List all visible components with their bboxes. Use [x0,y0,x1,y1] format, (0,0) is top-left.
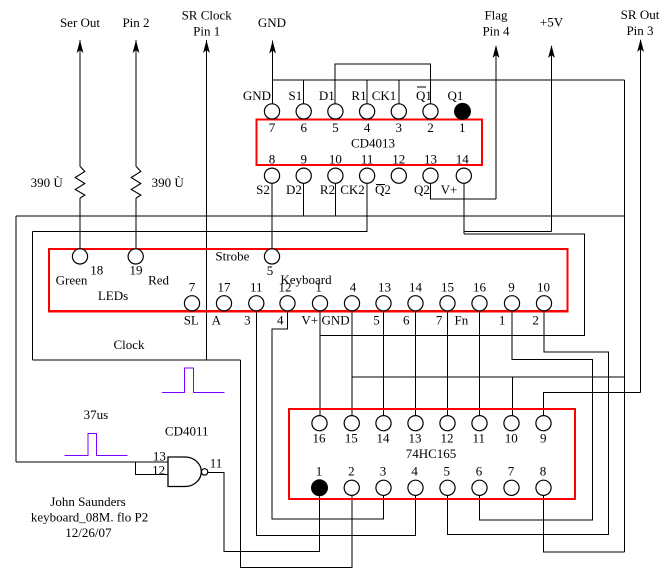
CD4013 pin 13 Q2 [414,152,438,198]
svg-text:SR Clock: SR Clock [182,8,233,23]
wire GND bottom to 74HC165 pin 8 [544,495,625,552]
svg-text:Green: Green [56,273,88,288]
svg-text:S2: S2 [256,182,270,197]
svg-text:14: 14 [409,279,423,294]
wire Clock horizontal [33,359,241,361]
svg-text:17: 17 [218,279,232,294]
wire keyboard pin 15 column to 74HC165 pin 12 [447,311,449,416]
svg-text:12: 12 [279,279,292,294]
keyboard pin 17 A [212,279,232,327]
svg-text:18: 18 [90,263,103,278]
svg-text:S1: S1 [289,88,303,103]
svg-text:Pin 3: Pin 3 [626,23,653,38]
svg-text:8: 8 [269,152,276,167]
svg-text:4: 4 [411,463,418,478]
svg-text:13: 13 [424,152,437,167]
keyboard pin 11 key 3 [244,279,264,327]
svg-text:7: 7 [189,279,196,294]
svg-text:13: 13 [153,449,166,464]
keyboard pin 15 key 7 [436,279,455,327]
wire CK2 to clock left column [33,183,368,231]
CD4013 pin 14 V+ [441,152,472,198]
svg-text:9: 9 [508,279,515,294]
keyboard pin 5 Strobe [215,249,279,279]
svg-text:8: 8 [540,463,547,478]
svg-text:Pin 2: Pin 2 [122,15,149,30]
svg-text:13: 13 [409,431,422,446]
svg-text:7: 7 [269,120,276,135]
wire GND net: left column x=16 down to CD4011 input [15,216,17,462]
wire keyboard pin 11 to 74HC165 pin 4 [256,311,415,535]
74HC165 pin 15 [344,416,359,446]
IC U1 CD4013 red outline [257,120,483,166]
svg-text:4: 4 [350,279,357,294]
svg-text:R1: R1 [351,88,366,103]
svg-text:R2: R2 [320,182,335,197]
svg-text:GND: GND [258,15,286,30]
74HC165 pin 6 [472,463,487,495]
wire SR Out to 74HC165 pin 9 [544,392,641,415]
svg-text:10: 10 [329,152,342,167]
wire CD4011 pin 13 input [16,461,168,463]
CD4013 pin 10 R2 [320,152,343,198]
svg-text:1: 1 [499,312,506,327]
svg-text:Q1: Q1 [416,88,432,103]
svg-text:D2: D2 [286,182,302,197]
wire V+ pin down to +5V rail [463,183,465,234]
wire Clock down to 74HC165 pin 2 [241,360,352,568]
wire GND net: right-side vertical column x=624.6 [624,80,626,552]
svg-text:Clock: Clock [113,337,145,352]
wire GND drop to 74HC165 pin 10 [511,377,513,416]
wire keyboard pin 16 column to 74HC165 pin 11 [479,311,481,416]
svg-text:Flag: Flag [484,8,508,23]
svg-text:4: 4 [364,120,371,135]
svg-text:15: 15 [441,279,454,294]
keyboard pin 14 key 6 [403,279,423,327]
node SR Out Pin 3 (test point arrow) [621,7,660,392]
svg-text:CK2: CK2 [340,182,365,197]
svg-text:SL: SL [184,312,199,327]
svg-text:11: 11 [361,152,374,167]
wire keyboard pin 9 to 74HC165 pin 6 [480,311,593,520]
svg-text:37us: 37us [84,407,109,422]
svg-text:Red: Red [148,273,169,288]
node SR Clock Pin 1 (test point arrow) [182,8,233,361]
keyboard pin 16 Fn [455,279,488,327]
wire CD4011 pin 12 input jog [135,462,168,475]
74HC165 pin 13 [408,416,423,446]
svg-text:11: 11 [250,279,263,294]
svg-text:12: 12 [392,152,405,167]
svg-text:A: A [212,312,222,327]
wire GND net: horizontal bus from GND arrow to right edge column [273,79,625,81]
svg-text:+5V: +5V [540,15,564,30]
svg-text:Pin 1: Pin 1 [193,24,220,39]
svg-text:19: 19 [130,263,143,278]
svg-text:2: 2 [532,312,539,327]
svg-text:1: 1 [315,279,322,294]
svg-text:14: 14 [456,152,470,167]
keyboard pin 10 key 2 [532,279,551,327]
74HC165 pin 10 [504,416,519,446]
svg-text:390 Ù: 390 Ù [152,175,185,190]
svg-text:Pin 4: Pin 4 [482,24,510,39]
svg-text:13: 13 [378,279,391,294]
svg-text:390 Ù: 390 Ù [31,175,64,190]
svg-text:1: 1 [459,120,466,135]
CD4013 pin 2 Q1-bar [416,87,438,135]
keyboard connector red outline [49,249,568,311]
CD4013 pin 1 Q1 (marked, filled) [448,88,471,135]
74HC165 pin 9 [536,416,551,446]
node +5V (power arrow) [540,15,564,232]
svg-text:7: 7 [508,463,515,478]
svg-text:CD4011: CD4011 [165,424,209,439]
CD4013 pin 9 D2 [286,152,311,198]
svg-text:Ser Out: Ser Out [60,15,100,30]
svg-text:9: 9 [540,431,547,446]
svg-text:12: 12 [441,431,454,446]
svg-text:5: 5 [267,263,274,278]
wire D1 to Q1-bar feedback [335,64,431,104]
svg-text:3: 3 [380,463,387,478]
svg-text:11: 11 [210,456,223,471]
wire S2 to keyboard Strobe pin 5 [271,183,273,249]
wire CK1 stub to GND bus [398,80,400,104]
wire V+ rail to +5V arrow column [464,230,552,232]
svg-text:7: 7 [436,312,443,327]
svg-text:John Saunders: John Saunders [50,494,125,509]
svg-text:V+: V+ [441,182,458,197]
keyboard pin 7 SL [184,279,200,327]
wire keyboard pin 1 V+ column down to 74HC165 pin 16 [319,336,321,416]
svg-text:Q1: Q1 [448,88,464,103]
CD4013 pin 7 GND [243,88,280,135]
svg-text:6: 6 [403,312,410,327]
keyboard pin 4 GND [322,279,360,327]
svg-text:12/26/07: 12/26/07 [65,525,112,540]
74HC165 pin 3 [376,463,391,495]
node Flag Pin 4 (test point arrow) [482,8,510,200]
node Pin 2 (test point arrow) [122,15,149,166]
svg-text:1: 1 [316,463,323,478]
svg-text:GND: GND [322,312,350,327]
node Ser Out (test point arrow) [60,15,100,166]
svg-text:16: 16 [313,431,327,446]
wire R1 stub to GND bus [366,80,368,104]
svg-text:Fn: Fn [455,312,469,327]
CD4013 pin 4 R1 [351,88,374,135]
74HC165 pin 5 [440,463,455,495]
wire CD4011 output pin 11 to 74HC165 pin 1 [207,472,319,551]
74HC165 pin 12 [440,416,455,446]
svg-text:9: 9 [300,152,307,167]
op-amp/gate CD4011 NAND U2 body [152,424,222,487]
svg-text:15: 15 [345,431,358,446]
keyboard pin 19 Red LED [128,249,169,288]
wire keyboard pin 4 GND column down to 74HC165 pin 15 [351,311,353,416]
svg-text:Q2: Q2 [414,182,430,197]
svg-text:D1: D1 [319,88,335,103]
svg-text:5: 5 [443,463,450,478]
svg-text:3: 3 [396,120,403,135]
keyboard pin 1 V+ [301,279,327,327]
svg-text:11: 11 [473,431,486,446]
wire GND net: mid horizontal y=216 from left column to right column (D2,R2) [16,215,625,217]
wire keyboard pin 10 to 74HC165 pin 5 [448,311,609,534]
svg-text:14: 14 [377,431,391,446]
svg-text:Strobe: Strobe [215,249,249,264]
waveform clock pulse (purple) [162,368,225,392]
svg-text:6: 6 [476,463,483,478]
74HC165 pin 8 [536,463,551,495]
wire GND horizontal y=376.8 from keyboard pin 4 to right GND column [352,376,625,378]
CD4013 pin 8 S2 [256,152,279,198]
keyboard pin 9 key 1 [499,279,520,327]
svg-text:keyboard_08M. flo P2: keyboard_08M. flo P2 [31,510,148,525]
74HC165 pin 7 [504,463,519,495]
CD4013 pin 11 CK2 [340,152,374,198]
wire keyboard pin 12 to 74HC165 pin 3 [272,311,384,519]
svg-text:5: 5 [332,120,339,135]
wire Q2 to Flag [431,183,497,199]
wire S1 stub to GND bus [303,80,305,104]
74HC165 pin 14 [376,416,391,446]
74HC165 pin 16 [312,416,327,446]
svg-text:V+: V+ [301,312,318,327]
keyboard pin 18 Green LED [56,249,104,288]
svg-text:CK1: CK1 [372,88,397,103]
74HC165 pin 1 (marked, filled) [311,463,328,496]
74HC165 pin 2 [344,463,359,495]
keyboard pin 12 key 4 [277,279,295,327]
svg-text:3: 3 [244,312,251,327]
svg-text:5: 5 [373,312,380,327]
svg-text:6: 6 [300,120,307,135]
wire keyboard pin 14 column to 74HC165 pin 13 [415,311,417,416]
CD4013 pin 12 Q2-bar [375,152,406,198]
wire V+ rail around keyboard right side [320,234,585,336]
74HC165 pin 4 [408,463,423,495]
svg-text:10: 10 [505,431,518,446]
wire clock left column x=34 [32,232,34,361]
IC U3 74HC165 red outline [289,409,575,499]
svg-text:2: 2 [348,463,355,478]
CD4013 pin 3 CK1 [372,88,407,135]
svg-text:10: 10 [537,279,550,294]
svg-text:74HC165: 74HC165 [406,446,457,461]
wire R2 stub down to GND mid bus [334,183,336,216]
wire keyboard pin 13 column to 74HC165 pin 14 [383,311,385,416]
waveform 37us pulse (purple) [65,434,128,456]
wire D2 stub down to GND mid bus [303,183,305,216]
svg-text:4: 4 [277,312,284,327]
node GND (test point arrow) [258,15,286,104]
keyboard pin 13 key 5 [373,279,391,327]
resistor R-green 390 Ohm [31,166,85,249]
svg-text:CD4013: CD4013 [351,136,395,151]
svg-text:2: 2 [427,120,434,135]
CD4013 pin 6 S1 [289,88,312,135]
svg-text:GND: GND [243,88,271,103]
svg-text:LEDs: LEDs [98,288,128,303]
svg-text:16: 16 [473,279,487,294]
svg-text:SR Out: SR Out [621,7,660,22]
resistor R-red 390 Ohm [131,166,184,249]
74HC165 pin 11 [472,416,487,446]
svg-text:12: 12 [152,463,165,478]
CD4013 pin 5 D1 [319,88,343,135]
